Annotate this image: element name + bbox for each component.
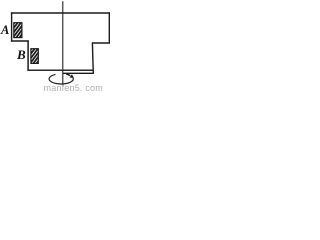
wire right step [92,42,110,44]
label B [17,47,26,63]
wire top edge [11,12,110,14]
label A [1,23,9,38]
wire right outer wall [108,12,110,43]
wire left outer wall [11,12,13,41]
wire floor [27,69,93,71]
centerline (rotation axis) [62,1,64,86]
watermark [44,83,103,93]
wire bottom right [63,72,94,74]
wire left inner wall [27,40,29,71]
block B (hatched) [29,36,41,74]
rotation arrow [66,74,70,76]
wire right inner wall [91,43,94,74]
block A (hatched) [12,10,24,52]
wire left step [11,40,29,42]
rotation ellipse [49,74,73,84]
